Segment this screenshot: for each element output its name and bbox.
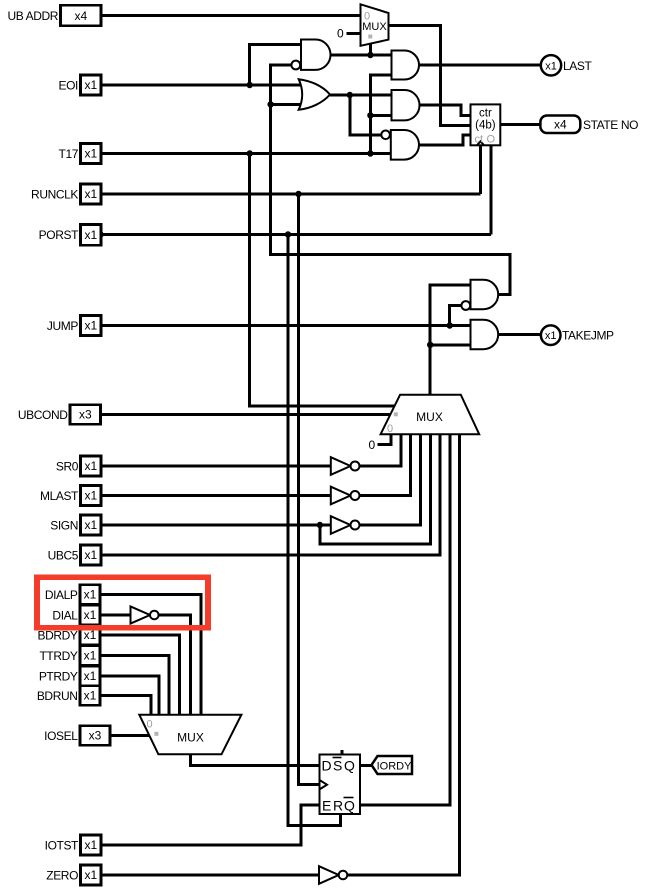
wire MLAST to inverter [101, 494, 331, 497]
and-gate U8 (to TAKEJMP) [471, 320, 499, 349]
output LAST circle [541, 55, 561, 75]
wire SR0 to inverter [101, 465, 331, 468]
svg-text:x3: x3 [79, 408, 92, 422]
svg-text:x1: x1 [84, 669, 97, 683]
svg-text:SR0: SR0 [56, 459, 79, 473]
wire DIALP to iosel mux [100, 595, 201, 715]
wire ZERO to inverter [101, 874, 319, 877]
bubble U1 input [291, 61, 300, 70]
svg-text:TAKEJMP: TAKEJMP [562, 329, 614, 343]
svg-text:E: E [322, 798, 331, 814]
port box BDRUN x1 [80, 686, 100, 705]
clock caret U6 ctr [477, 141, 484, 145]
port box PORST x1 [81, 225, 102, 246]
svg-text:UBC5: UBC5 [48, 548, 79, 562]
output STATE NO box [540, 116, 580, 134]
svg-text:x1: x1 [84, 868, 97, 882]
svg-text:x1: x1 [545, 60, 557, 72]
or-gate U2 [299, 79, 330, 110]
wire DIAL inverted to iosel mux [159, 615, 191, 715]
wire PTRDY to iosel mux [100, 676, 159, 715]
svg-text:BDRUN: BDRUN [37, 689, 78, 703]
wire feedback net: nand bubble, or low input, takejmp gate output [271, 65, 510, 295]
svg-text:0: 0 [387, 423, 393, 435]
wire and B bottom input [370, 114, 391, 117]
wire FF Q to IORDY [360, 764, 372, 767]
wire UBC5 to big mux input 6 [101, 434, 440, 555]
port box TTRDY x1 [80, 646, 100, 665]
svg-text:0: 0 [364, 11, 370, 23]
mux M2 (UBCOND mux) [381, 395, 480, 435]
svg-text:ctr: ctr [479, 108, 492, 120]
wire EOI to or gate [101, 84, 307, 87]
svg-text:x1: x1 [84, 649, 97, 663]
node EOI junction [247, 82, 253, 88]
svg-text:IORDY: IORDY [377, 760, 413, 772]
bubble U14 [339, 871, 348, 880]
svg-text:0: 0 [369, 438, 376, 452]
node T17 junction 2 [367, 150, 373, 156]
wire PORST line [101, 233, 491, 236]
wire SIGN direct underpass to big mux input 5 [320, 434, 430, 544]
svg-text:x1: x1 [84, 459, 97, 473]
port box EOI x1 [81, 75, 102, 95]
wire FF notQ riser to big mux input 7 [360, 434, 450, 805]
svg-text:x1: x1 [84, 838, 97, 852]
wire ZERO inverted riser to big mux input 8 [347, 434, 460, 875]
node andE-bottom junction [427, 342, 433, 348]
svg-text:ZERO: ZERO [46, 868, 78, 882]
port box T17 x1 [81, 144, 102, 164]
svg-text:x1: x1 [84, 78, 97, 92]
wire RUNCLK riser to FF clock [299, 194, 320, 785]
port box UB ADDR x4 [61, 5, 102, 26]
wire top mux select [369, 43, 372, 56]
wire BDRUN to iosel mux [100, 696, 151, 715]
wire FF S stub [341, 750, 344, 755]
port box SIGN x1 [81, 515, 102, 535]
wire EOI riser to nand top input [250, 45, 302, 85]
node nand-out/mux-select junction [367, 52, 373, 58]
svg-text:TTRDY: TTRDY [40, 649, 78, 663]
wire MLAST inverted to big mux input 3 [360, 434, 411, 495]
port box RUNCLK x1 [81, 184, 102, 204]
wire PORST riser to FF reset [288, 235, 341, 826]
and-gate U3 (to LAST) [392, 51, 420, 80]
svg-text:x4: x4 [74, 9, 87, 23]
svg-text:PTRDY: PTRDY [39, 669, 78, 683]
wire SIGN inverted to big mux input 4 [360, 434, 421, 525]
svg-text:MUX: MUX [362, 21, 387, 33]
node PORST junction [285, 231, 291, 237]
and-gate U7 (jump, upper with bubble) [471, 280, 499, 309]
port box BDRDY x1 [80, 625, 100, 644]
wire nand output to and A [330, 54, 392, 57]
node JUMP junction [447, 322, 453, 328]
svg-text:D: D [322, 758, 332, 774]
port box DIAL x1 [80, 605, 100, 624]
node andB-bottom junction [367, 112, 373, 118]
svg-text:PORST: PORST [39, 228, 79, 242]
svg-text:MLAST: MLAST [40, 489, 79, 503]
port box UBCOND x3 [70, 405, 101, 424]
nand U1 (input-bubble and gate, top-left) [301, 40, 331, 70]
wire ctr reset riser [489, 145, 492, 234]
svg-text:DIALP: DIALP [45, 588, 78, 602]
node SIGN junction [317, 522, 323, 528]
svg-text:UB ADDR: UB ADDR [7, 9, 58, 23]
svg-text:STATE NO: STATE NO [583, 118, 638, 132]
wire iosel mux output to FF D input [191, 754, 320, 766]
svg-text:x3: x3 [89, 729, 102, 743]
svg-text:MUX: MUX [416, 410, 443, 424]
svg-text:RUNCLK: RUNCLK [31, 187, 78, 201]
inverter U10 (MLAST) [331, 487, 351, 505]
svg-text:LAST: LAST [563, 59, 592, 73]
svg-text:O: O [487, 134, 496, 146]
svg-text:x1: x1 [84, 548, 97, 562]
port box MLAST x1 [81, 486, 102, 506]
wire DIAL to inverter [100, 614, 131, 617]
bubble U7 input [461, 301, 470, 310]
svg-text:x4: x4 [554, 118, 567, 132]
svg-text:x1: x1 [84, 608, 97, 622]
bubble U11 [351, 521, 360, 530]
svg-text:MUX: MUX [177, 731, 204, 745]
highlight rectangle (red) around DIALP/DIAL [37, 577, 208, 627]
svg-text:S: S [333, 758, 342, 774]
node T17 junction 1 [247, 150, 253, 156]
wire constant 0 to top mux [347, 32, 361, 35]
svg-text:(4b): (4b) [475, 120, 496, 132]
bubble U5 input [381, 131, 390, 140]
wire RUNCLK line [101, 193, 481, 196]
wire SR0 inverted to big mux input 2 [360, 434, 401, 466]
inverter U14 (ZERO) [319, 866, 339, 884]
flip-flop U13 (D S Q / E R Q) [320, 755, 361, 815]
bubble U10 [351, 491, 360, 500]
svg-text:x1: x1 [84, 228, 97, 242]
svg-text:UBCOND: UBCOND [18, 408, 68, 422]
wire UB ADDR to top mux [101, 14, 361, 17]
port box ZERO x1 [81, 865, 102, 885]
svg-text:DIAL: DIAL [52, 608, 78, 622]
wire big mux output riser to and D top input [430, 285, 470, 395]
wire ctr output to STATE NO [500, 123, 540, 126]
wire or gate lower input [271, 103, 307, 106]
svg-text:IOSEL: IOSEL [44, 729, 78, 743]
inverter U11 (SIGN) [331, 516, 351, 534]
svg-text:x1: x1 [84, 518, 97, 532]
svg-text:R: R [333, 798, 343, 814]
wire IOSEL to iosel mux select [110, 734, 151, 737]
counter U6 ctr(4b) [471, 104, 501, 145]
mux M3 (IOSEL mux) [139, 715, 241, 755]
node PORST box junction [97, 231, 104, 238]
node RUNCLK junction [295, 191, 301, 197]
mux M1 (UB ADDR mux) [361, 4, 389, 46]
svg-text:x1: x1 [84, 147, 97, 161]
wire and A output to LAST [419, 64, 542, 67]
svg-text:ct: ct [475, 134, 484, 146]
svg-text:x1: x1 [84, 187, 97, 201]
nand U5 (input-bubble and gate, to ctr) [391, 130, 419, 160]
svg-text:x1: x1 [84, 689, 97, 703]
svg-text:0: 0 [337, 27, 344, 41]
wire T17 line [101, 152, 391, 155]
inverter U9 (SR0) [331, 457, 351, 475]
port box IOSEL x3 [80, 726, 110, 745]
wire and A bottom input from T17 riser [370, 75, 391, 154]
svg-text:0: 0 [147, 719, 153, 731]
svg-text:Q: Q [344, 798, 355, 814]
and-gate U4 (to ctr) [392, 90, 420, 120]
port box SR0 x1 [81, 456, 102, 476]
wire IOTST to FF E input [101, 805, 320, 845]
svg-text:T17: T17 [59, 147, 79, 161]
wire jump riser to and D bubble [450, 306, 462, 326]
port box PTRDY x1 [80, 666, 100, 685]
node or-output junction [347, 92, 353, 98]
port box UBC5 x1 [81, 545, 102, 565]
svg-text:JUMP: JUMP [47, 319, 78, 333]
svg-text:x1: x1 [84, 319, 97, 333]
port box DIALP x1 [80, 585, 100, 604]
svg-text:x1: x1 [545, 330, 557, 342]
svg-text:Q: Q [344, 758, 355, 774]
bubble U9 [351, 462, 360, 471]
wire SIGN to inverter [101, 524, 331, 527]
wire ctr clock riser [479, 145, 482, 194]
output tag IORDY [372, 756, 413, 774]
svg-text:EOI: EOI [59, 78, 79, 92]
wire or output to and B [329, 94, 391, 97]
bubble U12 [150, 611, 159, 620]
clock marker U13 [320, 780, 328, 789]
wire or-output branch to nand C bubble [350, 95, 382, 135]
svg-text:x1: x1 [84, 489, 97, 503]
wire T17 riser to big mux select [250, 154, 395, 406]
port box IOTST x1 [81, 835, 102, 855]
output TAKEJMP circle [541, 325, 561, 345]
port box JUMP x1 [81, 316, 102, 336]
wire and B output to ctr [419, 105, 471, 115]
svg-text:SIGN: SIGN [50, 518, 78, 532]
wire and E bottom input [430, 343, 470, 346]
wire nand C output to ctr [419, 135, 471, 145]
svg-text:IOTST: IOTST [45, 838, 79, 852]
inverter U12 (DIAL) [131, 606, 151, 623]
wire and E output to TAKEJMP [499, 333, 541, 336]
wire BDRDY to iosel mux [100, 635, 179, 715]
wire TTRDY to iosel mux [100, 656, 169, 715]
wire constant 0 to big mux input 1 [378, 434, 392, 444]
svg-text:x1: x1 [84, 588, 97, 602]
wire UBCOND to big mux select [101, 413, 392, 416]
wire top mux output to ctr [389, 25, 471, 125]
node feedback/or-low junction [267, 101, 273, 107]
wire JUMP line [101, 324, 471, 327]
